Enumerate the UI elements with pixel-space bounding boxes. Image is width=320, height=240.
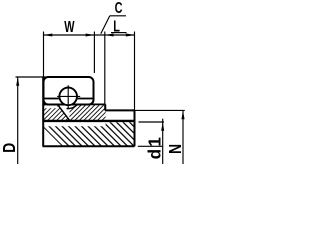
svg-text:W: W xyxy=(64,18,74,36)
svg-text:N: N xyxy=(165,144,185,154)
C underline xyxy=(110,15,126,17)
svg-text:C: C xyxy=(115,0,123,17)
part left edge xyxy=(42,77,44,146)
shaft top line xyxy=(44,103,59,105)
arrow W left xyxy=(44,33,53,36)
dimension D line xyxy=(17,77,19,164)
arrow L right xyxy=(126,33,135,36)
arrow W right xyxy=(86,33,95,36)
hatch upper region: rail strip + shaft under ball (///) xyxy=(44,84,106,121)
arrow d1 up xyxy=(161,122,164,131)
housing top edge + D extension line xyxy=(16,76,49,78)
svg-text:1: 1 xyxy=(144,137,165,147)
arrow L left xyxy=(105,33,114,36)
white wedge bottom-left of base xyxy=(44,128,62,146)
svg-text:D: D xyxy=(0,143,19,153)
ball crosshair horizontal xyxy=(57,95,80,97)
svg-text:d: d xyxy=(144,149,165,159)
dimension d1 line xyxy=(162,119,164,164)
dimension N line xyxy=(182,110,184,164)
part right edge xyxy=(134,110,136,146)
extension line L right xyxy=(134,32,136,111)
housing outline (rounded rect) xyxy=(44,77,94,105)
bottom extension line (right) xyxy=(138,145,163,147)
L underline xyxy=(111,32,127,34)
shaft bottom thick line xyxy=(44,120,135,122)
step face vertical xyxy=(105,104,107,110)
hatch lower region: base + step foot (\\) xyxy=(44,122,135,146)
extension line W left xyxy=(43,32,45,81)
rail edge diagonal xyxy=(58,105,70,120)
wedge white under ball-left xyxy=(58,105,70,121)
white wedge top-left of rail strip xyxy=(44,105,57,108)
extension line L left / step edge xyxy=(104,32,106,111)
dimension line top (W / C / L) xyxy=(44,34,135,36)
step top edge xyxy=(105,109,135,111)
bearing bore line xyxy=(44,98,59,100)
ball xyxy=(59,88,77,106)
ball crosshair vertical xyxy=(67,85,69,109)
extension line W right xyxy=(93,32,95,74)
arrow D up xyxy=(16,77,19,86)
groove clearance (white) xyxy=(56,84,80,108)
d1 extension line xyxy=(139,121,165,123)
C leader line xyxy=(101,16,110,34)
N extension line xyxy=(135,109,185,111)
arrow N up xyxy=(181,110,184,119)
part bottom edge xyxy=(43,145,135,147)
